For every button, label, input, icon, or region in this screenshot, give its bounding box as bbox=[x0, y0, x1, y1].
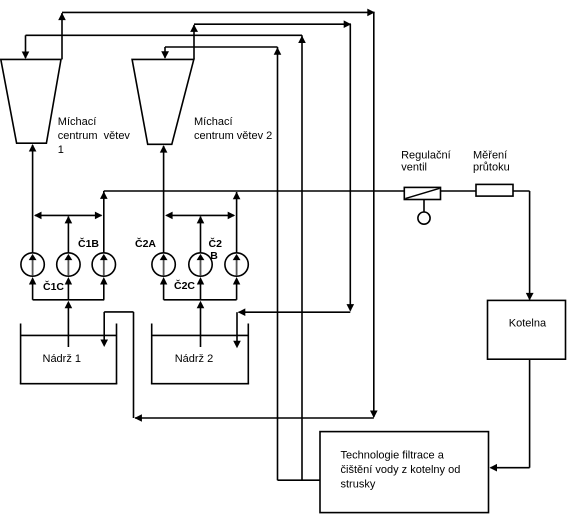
tank 1 right wall bbox=[116, 324, 118, 384]
wire: tank2 inlet elbow y=312 bbox=[239, 311, 351, 313]
pump C2C circle bbox=[225, 253, 248, 276]
mixing center 2 vessel (trapezoid) bbox=[132, 59, 194, 144]
filtration technology box bbox=[320, 432, 489, 513]
arrow left into filtration box right edge bbox=[490, 464, 498, 472]
svg-text:Technologie filtrace a: Technologie filtrace a bbox=[341, 450, 445, 462]
wire: line A horizontal y=12 from trapezoid1 outlet to right corner bbox=[62, 11, 375, 13]
wire: line D short drop into trapezoid2 bbox=[164, 47, 166, 58]
arrow down at bottom of line A vertical bbox=[370, 411, 378, 419]
arrow up into pump5 bbox=[197, 277, 204, 285]
svg-text:Č1C: Č1C bbox=[43, 280, 64, 293]
svg-text:Míchací: Míchací bbox=[58, 116, 97, 128]
arrow up at start of line A bbox=[58, 13, 66, 21]
arrow left end bar 1 bbox=[34, 212, 42, 220]
arrow down into tank2 bbox=[233, 341, 241, 349]
wire: bottom return horizontal y=418 bbox=[135, 417, 374, 419]
arrow up pump5 riser bbox=[197, 216, 205, 224]
arrow down into tank1 bbox=[100, 340, 108, 348]
pump C1C circle bbox=[92, 253, 115, 276]
wire: tank2 suction riser bbox=[200, 306, 202, 348]
arrow up into pump1 bbox=[29, 277, 36, 285]
arrow down into trapezoid2 top bbox=[161, 51, 169, 59]
wire: line C vertical x=302 down to filtration box feed bbox=[301, 35, 303, 480]
arrow up into trapezoid1 bottom bbox=[29, 144, 37, 152]
wire: filtration box feed horizontal y=480 bbox=[278, 479, 321, 481]
pump C1B circle bbox=[57, 253, 80, 276]
pump C1B internal arrow bbox=[67, 260, 69, 276]
wire: suction stub pump1 bbox=[32, 284, 34, 300]
wire: tank1 return drop pipe x=133.5 bbox=[133, 312, 135, 418]
arrow up into trapezoid2 bottom bbox=[160, 145, 168, 153]
wire: line A riser from trapezoid1 top-right bbox=[61, 13, 63, 59]
pump C2B internal arrow bbox=[200, 260, 202, 276]
Kotelna box bbox=[488, 300, 566, 359]
arrow down into Kotelna top bbox=[526, 293, 534, 301]
pump C1A internal arrow bbox=[32, 260, 34, 276]
tank 2 left wall bbox=[151, 324, 153, 384]
pump C2C internal arrow bbox=[236, 260, 238, 276]
tank 1 bottom bbox=[20, 383, 118, 385]
wire: line B riser from trapezoid2 top-right bbox=[193, 25, 195, 59]
arrow up into pump6 bbox=[233, 277, 240, 285]
wire: tank1 inlet drop bbox=[103, 312, 105, 340]
svg-text:B: B bbox=[210, 250, 218, 262]
tank 1 left wall bbox=[20, 324, 22, 384]
wire: line A vertical drop x=374 bbox=[373, 12, 375, 417]
wire: riser pump2 to distribution bar 1 bbox=[67, 217, 69, 254]
svg-text:Míchací: Míchací bbox=[194, 116, 233, 128]
wire: Kotelna to filtration box horizontal y=468 bbox=[491, 467, 530, 469]
wire: distribution double-arrow bar 1 y=215 bbox=[35, 214, 102, 216]
arrow down at bottom of line B vertical onto tank2 feed bbox=[347, 304, 355, 312]
arrow up into pump3 bbox=[100, 277, 107, 285]
arrow up pump3 riser at main line bbox=[100, 191, 108, 199]
wire: line C short drop into trapezoid1 bbox=[25, 35, 27, 58]
control valve actuator stem bbox=[423, 200, 425, 213]
svg-text:průtoku: průtoku bbox=[473, 161, 510, 173]
wire: tank1 return elbow y=312 bbox=[104, 311, 133, 313]
flow meter body bbox=[476, 184, 513, 196]
wire: main process line y=191 from pump C1B column to right corner bbox=[104, 190, 530, 192]
svg-text:čištění vody z kotelny od: čištění vody z kotelny od bbox=[341, 464, 461, 476]
svg-text:strusky: strusky bbox=[341, 479, 376, 491]
arrow down into trapezoid1 top bbox=[22, 52, 30, 60]
control valve diagonal bbox=[405, 188, 439, 198]
wire: line B horizontal y=24 from trapezoid2 outlet to right corner bbox=[194, 23, 351, 25]
tank 2 right wall bbox=[247, 324, 249, 384]
svg-text:centrum větev: centrum větev bbox=[58, 130, 131, 142]
svg-text:ventil: ventil bbox=[401, 161, 427, 173]
wire: suction manifold 2 y=300 bbox=[164, 299, 237, 301]
pump C2B circle bbox=[189, 253, 212, 276]
arrow right at corner of line A bbox=[367, 9, 375, 17]
tank 2 bottom bbox=[151, 383, 249, 385]
arrow up pump6 riser at main line bbox=[233, 192, 241, 200]
arrow right at corner of line B bbox=[344, 20, 352, 28]
arrow up into pump2 bbox=[65, 277, 72, 285]
svg-text:1: 1 bbox=[58, 144, 64, 156]
svg-text:Nádrž 2: Nádrž 2 bbox=[175, 353, 214, 365]
wire: riser pump3 to main line corner bbox=[103, 191, 105, 253]
svg-text:Č2C: Č2C bbox=[174, 279, 195, 292]
tank 1 water level bbox=[21, 334, 117, 336]
svg-text:Č2: Č2 bbox=[209, 237, 223, 250]
arrow up at line D right end junction bbox=[274, 47, 282, 55]
control valve actuator circle bbox=[418, 212, 430, 224]
control valve body bbox=[404, 187, 440, 199]
arrow up into manifold 1 bbox=[65, 301, 73, 309]
wire: line C horizontal y=35 into trapezoid1 bbox=[26, 34, 303, 36]
arrow right end bar 2 bbox=[228, 212, 236, 220]
wire: line D horizontal y=47 into trapezoid2 bbox=[165, 46, 278, 48]
arrow up pump2 riser bbox=[65, 216, 73, 224]
wire: suction stub pump2 bbox=[67, 284, 69, 300]
svg-text:Č2A: Č2A bbox=[135, 237, 156, 250]
svg-text:Nádrž 1: Nádrž 1 bbox=[43, 353, 82, 365]
wire: tank1 suction riser bbox=[67, 306, 69, 348]
wire: line B vertical drop x=350 bbox=[349, 24, 351, 310]
wire: riser pump1 to trapezoid1 bottom bbox=[32, 145, 34, 253]
wire: suction stub pump6 bbox=[236, 284, 238, 300]
arrow right end bar 1 bbox=[95, 212, 103, 220]
wire: Kotelna outlet drop bbox=[529, 359, 531, 468]
pump C2A circle bbox=[152, 253, 175, 276]
mixing center 1 vessel (trapezoid) bbox=[1, 59, 61, 143]
wire: suction stub pump4 bbox=[163, 284, 165, 300]
wire: suction stub pump3 bbox=[103, 284, 105, 300]
wire: riser pump6 to main line bbox=[236, 192, 238, 253]
wire: tank2 inlet drop bbox=[236, 312, 238, 341]
wire: suction manifold 1 y=300 bbox=[33, 299, 105, 301]
arrow left at end of bottom return bbox=[134, 414, 142, 422]
pump C1A circle bbox=[21, 253, 44, 276]
svg-text:Č1B: Č1B bbox=[78, 237, 99, 250]
arrow up at start of line B bbox=[190, 24, 198, 32]
arrow up into pump4 bbox=[160, 277, 167, 285]
wire: distribution double-arrow bar 2 y=215 bbox=[167, 214, 235, 216]
pump C2A internal arrow bbox=[163, 260, 165, 276]
svg-text:Regulační: Regulační bbox=[401, 149, 451, 161]
wire: riser pump4 to trapezoid2 bottom bbox=[163, 146, 165, 253]
tank 2 water level bbox=[152, 334, 249, 336]
svg-text:Měření: Měření bbox=[473, 149, 507, 161]
wire: suction stub pump5 bbox=[200, 284, 202, 300]
arrow left at tank2 elbow corner bbox=[238, 308, 246, 316]
wire: line D vertical x=277.5 down to filtration box feed bbox=[277, 47, 279, 480]
arrow left end bar 2 bbox=[165, 212, 173, 220]
svg-text:centrum větev 2: centrum větev 2 bbox=[194, 130, 272, 142]
pump C1C internal arrow bbox=[103, 260, 105, 276]
svg-text:Kotelna: Kotelna bbox=[509, 318, 547, 330]
arrow up at line C right end junction bbox=[298, 36, 306, 44]
arrow up into manifold 2 bbox=[197, 301, 205, 309]
wire: riser pump5 to distribution bar 2 bbox=[200, 217, 202, 254]
wire: right vertical drop to Kotelna bbox=[529, 191, 531, 299]
